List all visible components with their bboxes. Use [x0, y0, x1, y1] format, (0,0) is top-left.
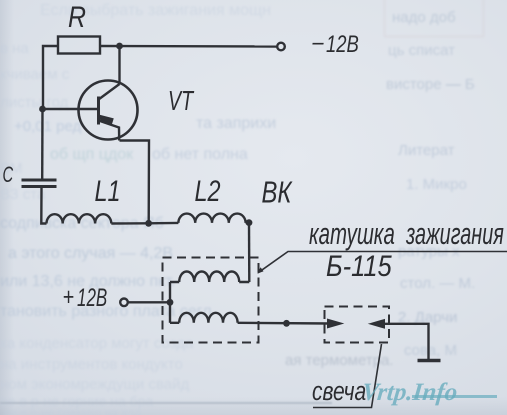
- node collector-top junction: [116, 43, 123, 50]
- bleed frame top right: [384, 0, 484, 37]
- leader line svecha: [313, 344, 382, 408]
- wire emitter down: [120, 141, 150, 224]
- svg-text:VT: VT: [168, 86, 195, 117]
- node L2-primary junction: [246, 219, 253, 226]
- svg-text:12В: 12В: [326, 31, 359, 58]
- wire +12V terminal to coil: [128, 301, 170, 303]
- svg-text:–: –: [312, 28, 325, 55]
- svg-text:свеча: свеча: [312, 378, 366, 407]
- svg-text:L1: L1: [95, 174, 121, 207]
- node +12V junction: [167, 299, 174, 306]
- dashed box ignition coil B-115: [163, 258, 259, 343]
- wire arrow to ground corner: [384, 324, 429, 359]
- wire node down to primary: [248, 223, 251, 282]
- inductor L1: [47, 214, 112, 223]
- terminal +12V: [120, 299, 128, 307]
- svg-text:+: +: [63, 283, 75, 311]
- svg-text:катушка: катушка: [309, 216, 395, 251]
- dashed box spark plug: [325, 307, 390, 343]
- svg-text:зажигания: зажигания: [405, 215, 504, 251]
- wire L2 to node: [246, 221, 249, 224]
- svg-text:ВК: ВК: [262, 174, 293, 209]
- leader arrowhead: [258, 268, 264, 274]
- capacitor C: [22, 180, 57, 187]
- svg-text:C: C: [3, 162, 14, 187]
- svg-text:12В: 12В: [77, 284, 107, 312]
- node base junction: [39, 106, 46, 113]
- wire collector vertical: [118, 46, 120, 84]
- wire capacitor to L1: [41, 188, 46, 224]
- wire L1 to junction: [111, 222, 148, 225]
- node spark wire junction: [283, 320, 290, 327]
- ignition coil secondary winding: [170, 313, 238, 323]
- wire left vertical to capacitor: [41, 108, 44, 179]
- watermark Vrtp.Info: [361, 379, 504, 407]
- wire common leg of coil: [169, 282, 171, 323]
- ignition coil primary winding: [170, 272, 249, 283]
- inductor L2: [178, 214, 245, 223]
- leader line katushka: [258, 252, 507, 273]
- resistor R: [58, 37, 100, 54]
- bottom edge line: [0, 402, 332, 404]
- wire junction to L2: [149, 222, 179, 225]
- wire top-left elbow to resistor: [43, 46, 58, 108]
- bleed-through layer: [40, 2, 271, 20]
- node L1-L2-emitter junction: [145, 220, 152, 227]
- svg-text:R: R: [68, 0, 86, 34]
- transistor VT: [79, 81, 138, 141]
- wire base: [43, 108, 99, 110]
- spark gap arrow right: [328, 319, 343, 328]
- wire resistor to -12V terminal: [100, 45, 277, 48]
- svg-text:Б-115: Б-115: [326, 249, 392, 282]
- svg-text:L2: L2: [195, 174, 221, 207]
- wire secondary to spark gap: [238, 322, 330, 325]
- terminal -12V: [277, 43, 285, 51]
- ground: [418, 359, 441, 363]
- spark gap arrow left: [370, 320, 385, 329]
